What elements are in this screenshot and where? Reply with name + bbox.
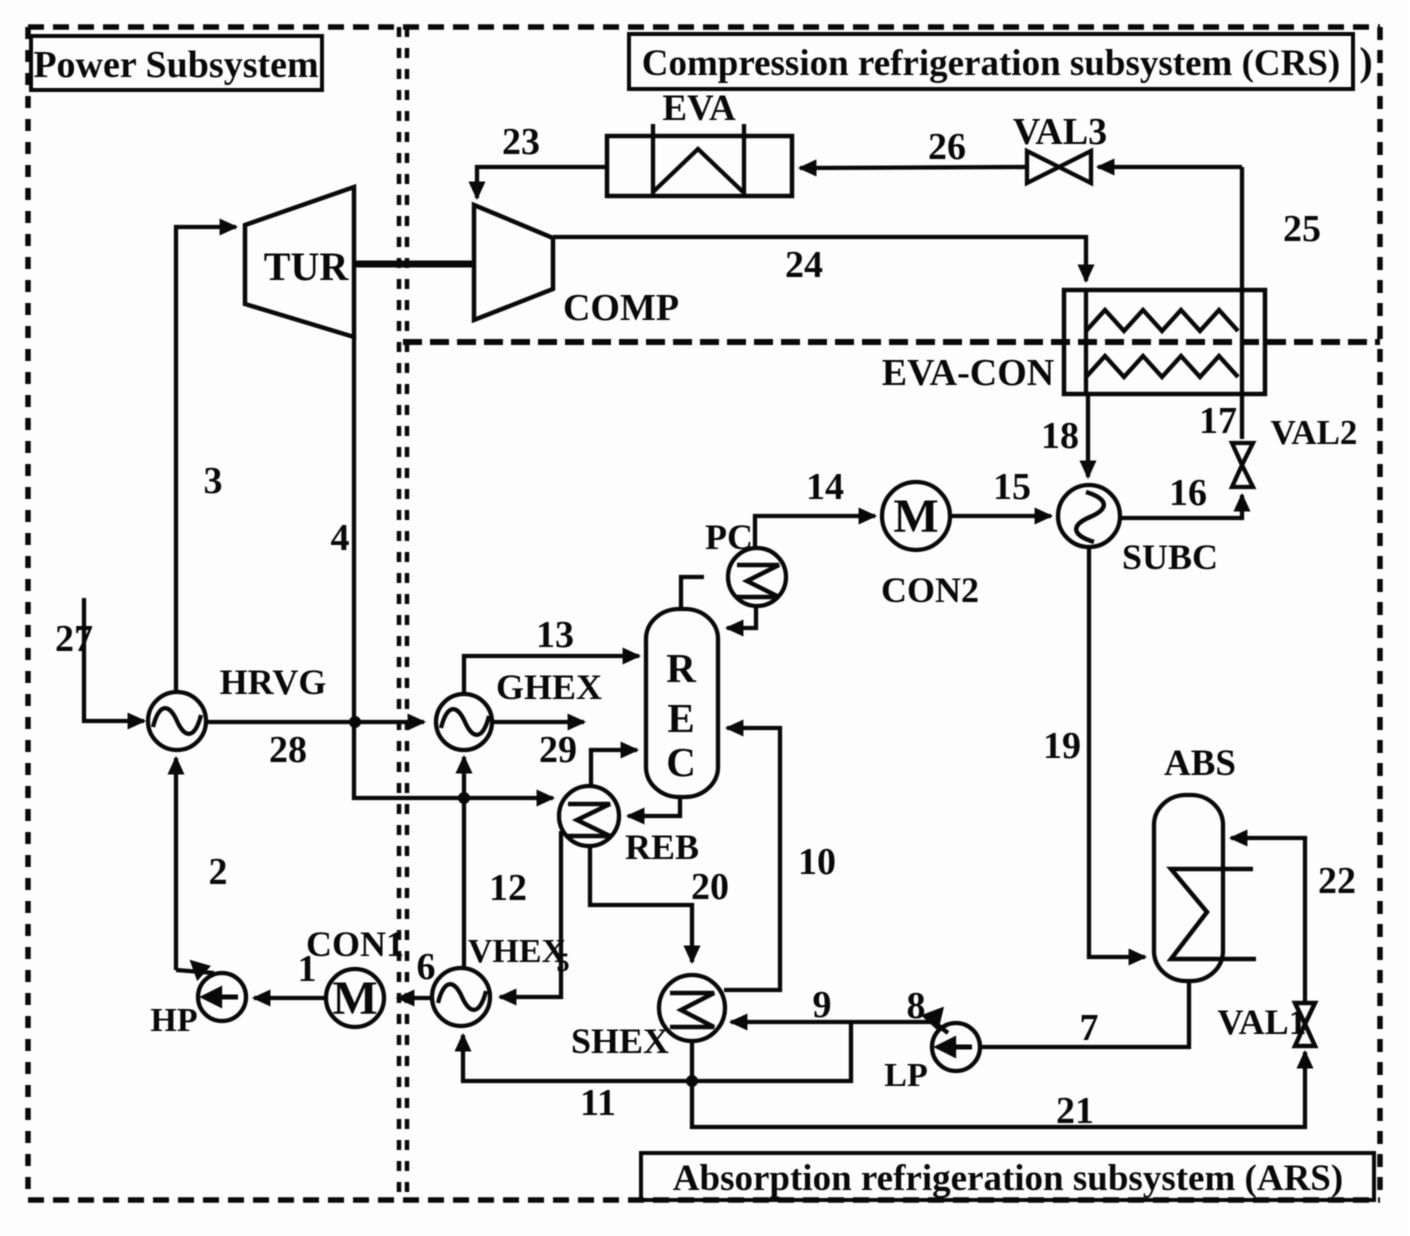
svg-text:REB: REB [625, 827, 699, 867]
svg-text:17: 17 [1199, 400, 1237, 442]
svg-text:18: 18 [1041, 415, 1079, 457]
svg-text:VAL1: VAL1 [1217, 1002, 1306, 1042]
svg-text:M: M [893, 490, 938, 543]
svg-text:M: M [332, 972, 377, 1025]
svg-text:Compression refrigeration subs: Compression refrigeration subsystem (CRS… [642, 43, 1341, 84]
svg-text:19: 19 [1043, 725, 1081, 767]
svg-text:24: 24 [785, 244, 823, 286]
svg-text:HRVG: HRVG [220, 662, 327, 702]
svg-text:8: 8 [907, 985, 926, 1027]
svg-text:7: 7 [1080, 1007, 1099, 1049]
svg-text:14: 14 [806, 466, 844, 508]
svg-text:): ) [1359, 39, 1372, 84]
svg-text:29: 29 [539, 729, 577, 771]
svg-text:C: C [666, 739, 696, 785]
svg-text:E: E [667, 695, 694, 741]
svg-text:23: 23 [502, 121, 540, 163]
svg-text:9: 9 [813, 984, 832, 1026]
svg-text:16: 16 [1169, 472, 1207, 514]
svg-text:COMP: COMP [563, 287, 679, 329]
svg-text:SHEX: SHEX [571, 1021, 669, 1061]
svg-text:25: 25 [1283, 208, 1321, 250]
svg-text:HP: HP [150, 1002, 197, 1039]
svg-text:15: 15 [993, 466, 1031, 508]
svg-text:EVA: EVA [662, 88, 736, 129]
svg-text:28: 28 [269, 729, 307, 771]
svg-text:TUR: TUR [264, 244, 350, 289]
svg-text:22: 22 [1318, 860, 1356, 902]
svg-text:12: 12 [489, 867, 527, 909]
svg-text:ABS: ABS [1164, 743, 1236, 784]
svg-text:SUBC: SUBC [1122, 537, 1218, 577]
svg-text:Absorption refrigeration subsy: Absorption refrigeration subsystem (ARS) [673, 1158, 1343, 1199]
svg-text:EVA-CON: EVA-CON [882, 352, 1054, 394]
svg-text:VAL2: VAL2 [1271, 413, 1358, 452]
svg-text:21: 21 [1056, 1090, 1094, 1132]
svg-text:13: 13 [536, 614, 574, 656]
svg-text:11: 11 [580, 1082, 616, 1124]
svg-text:GHEX: GHEX [496, 667, 602, 707]
svg-text:1: 1 [298, 948, 317, 990]
svg-text:CON1: CON1 [306, 924, 404, 964]
svg-text:10: 10 [798, 841, 836, 883]
svg-text:R: R [666, 645, 696, 691]
svg-text:VAL3: VAL3 [1013, 111, 1107, 153]
svg-text:VHEX: VHEX [468, 933, 567, 970]
svg-text:CON2: CON2 [881, 570, 979, 610]
svg-text:20: 20 [691, 866, 729, 908]
svg-text:LP: LP [884, 1057, 927, 1094]
svg-text:Power Subsystem: Power Subsystem [33, 44, 318, 86]
svg-text:3: 3 [204, 460, 223, 502]
svg-text:26: 26 [928, 126, 966, 168]
svg-text:4: 4 [331, 517, 350, 559]
svg-text:2: 2 [209, 851, 228, 893]
svg-text:6: 6 [417, 946, 436, 988]
svg-text:5: 5 [557, 948, 570, 977]
svg-text:27: 27 [55, 618, 93, 660]
svg-text:PC: PC [705, 517, 753, 557]
